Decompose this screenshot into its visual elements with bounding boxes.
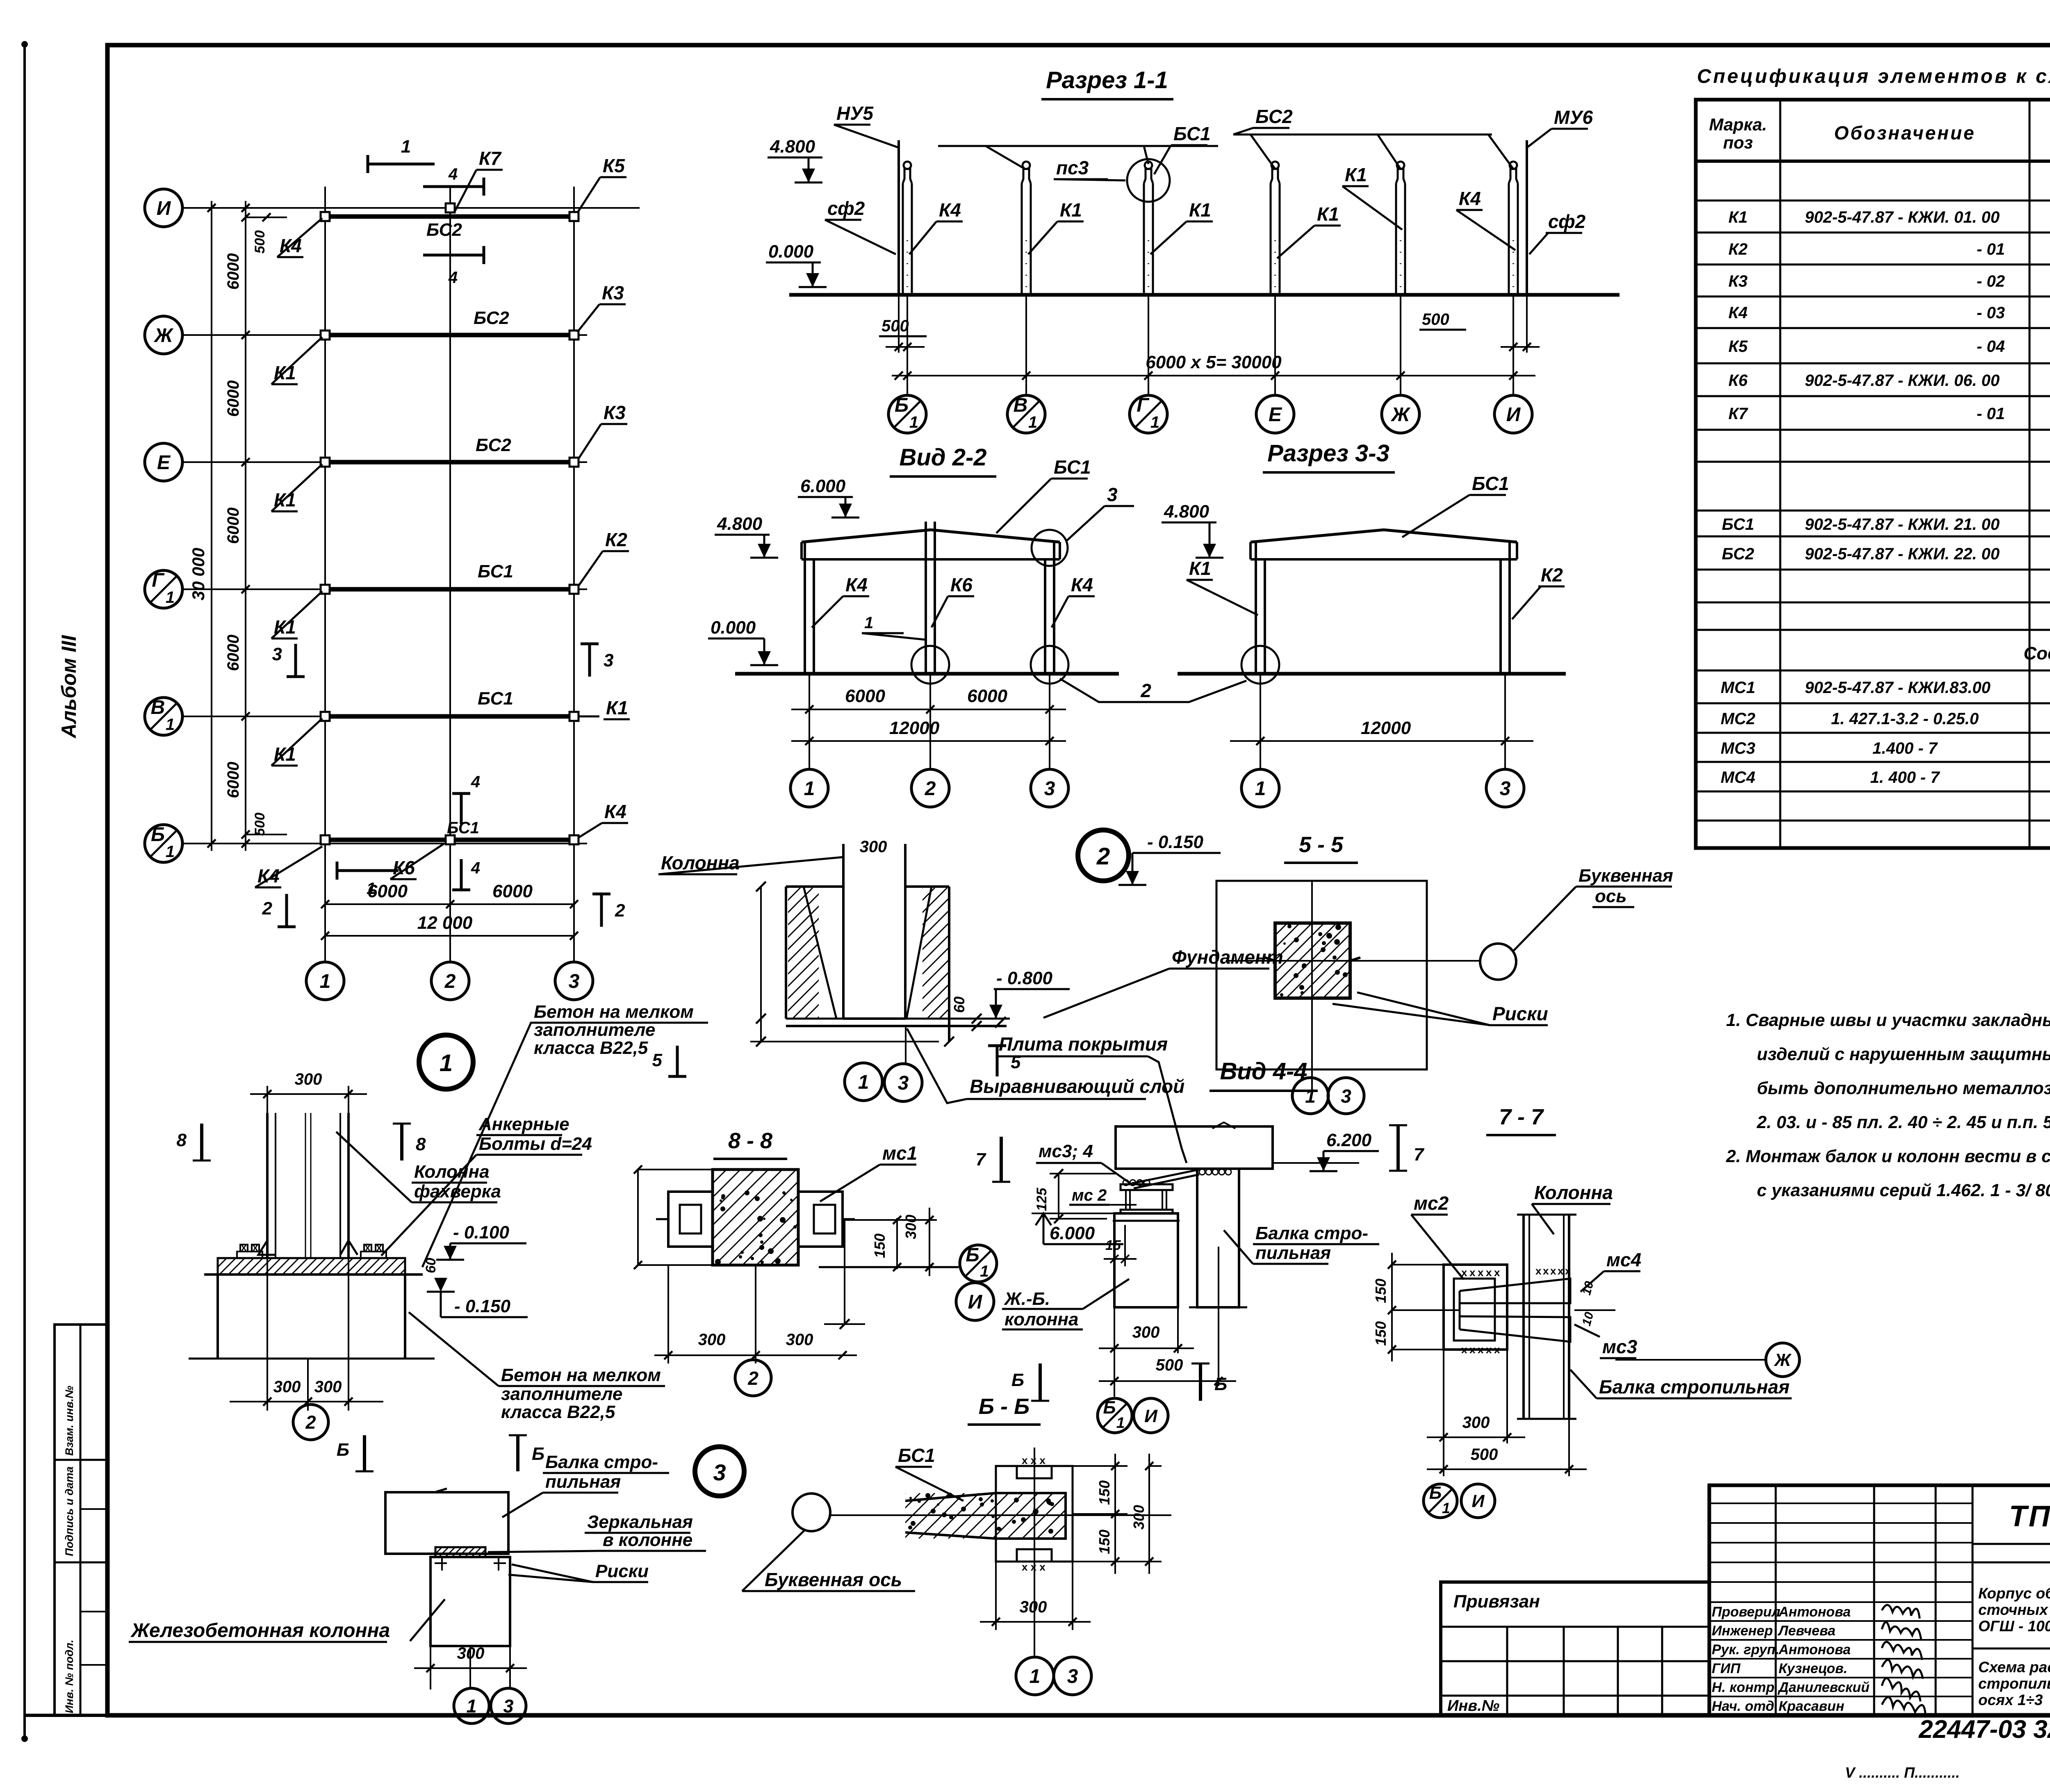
svg-text:К1: К1 (606, 697, 628, 718)
svg-text:3: 3 (503, 1696, 513, 1717)
svg-text:МС4: МС4 (1721, 768, 1755, 787)
svg-text:с указаниями серий 1.462: с указаниями серий 1.462. 1 - 3/ 80 и 1.… (1757, 1181, 2050, 1200)
svg-text:x: x (1543, 1265, 1549, 1277)
svg-text:2: 2 (615, 901, 625, 921)
svg-text:1: 1 (166, 843, 175, 861)
svg-text:И: И (157, 198, 171, 219)
svg-text:1: 1 (1116, 1414, 1125, 1431)
view 4-4 dim 125 (1058, 1174, 1059, 1219)
detail 2 bottom axis circles 1 3 (905, 1026, 907, 1065)
svg-text:сточных вод с 5 центрифугам: сточных вод с 5 центрифугами (1978, 1601, 2050, 1618)
svg-text:1: 1 (401, 137, 411, 157)
svg-text:1: 1 (466, 1696, 476, 1717)
svg-text:Ж.-Б.: Ж.-Б. (1004, 1289, 1050, 1309)
svg-text:60: 60 (951, 996, 968, 1013)
svg-text:Инженер: Инженер (1712, 1623, 1773, 1639)
svg-text:4: 4 (448, 269, 458, 287)
svg-text:БС1: БС1 (478, 561, 513, 581)
plan: section mark 4-4 upper pair (423, 185, 484, 188)
plan: section mark 4 bottom pair (460, 793, 463, 824)
section 1-1 extension lines to axis circles (907, 295, 908, 394)
svg-text:300: 300 (860, 838, 887, 856)
svg-text:Е: Е (1269, 404, 1282, 426)
detail 7-7 section mark 7 (1396, 1125, 1400, 1171)
svg-text:в колонне: в колонне (603, 1530, 692, 1550)
svg-text:12000: 12000 (889, 718, 940, 738)
plan: column squares at beam ends (321, 212, 330, 221)
svg-text:1: 1 (804, 778, 815, 800)
svg-text:МС3: МС3 (1721, 739, 1755, 757)
svg-text:Болты d=24: Болты d=24 (479, 1134, 592, 1154)
svg-text:Буквенная: Буквенная (1578, 866, 1673, 886)
view 4-4 sloped connector plates mc3 mc4 (1132, 1170, 1199, 1183)
svg-text:Ж: Ж (1774, 1350, 1792, 1370)
svg-text:Вид 4-4: Вид 4-4 (1220, 1058, 1307, 1085)
svg-text:Инв.№: Инв.№ (1447, 1697, 1499, 1714)
svg-text:6000 х 5= 30000: 6000 х 5= 30000 (1146, 352, 1282, 372)
svg-text:300: 300 (295, 1070, 322, 1088)
svg-text:6000: 6000 (224, 381, 242, 417)
svg-text:Б: Б (1214, 1374, 1227, 1394)
svg-text:4: 4 (471, 859, 480, 877)
svg-text:2: 2 (305, 1412, 316, 1433)
svg-text:500: 500 (252, 230, 268, 254)
svg-text:x: x (1478, 1343, 1484, 1356)
svg-text:0.000: 0.000 (768, 242, 814, 262)
svg-text:3: 3 (272, 644, 282, 664)
svg-text:Разрез 1-1: Разрез 1-1 (1046, 67, 1168, 93)
detail 2 section marks 5 (676, 1046, 679, 1076)
detail 1 section marks 8 (200, 1124, 203, 1160)
svg-text:Е: Е (157, 452, 171, 474)
svg-text:Корпус обезвоживания осадка: Корпус обезвоживания осадка (1978, 1585, 2050, 1602)
detail Б-Б axes (830, 1514, 1171, 1516)
plan: row axis circles and grid lines (145, 189, 182, 227)
left stamp strip (55, 1325, 107, 1715)
svg-text:И: И (1472, 1491, 1485, 1511)
svg-text:12000: 12000 (1361, 718, 1411, 738)
svg-text:ГИП: ГИП (1712, 1661, 1741, 1676)
svg-text:БС1: БС1 (1472, 473, 1509, 494)
plan: bottom dimension lines 6000+6000 and 12000 (325, 903, 574, 905)
svg-text:К6: К6 (1729, 372, 1748, 390)
svg-text:0.000: 0.000 (711, 618, 756, 638)
svg-text:К7: К7 (1729, 405, 1749, 423)
svg-text:БС1: БС1 (1722, 515, 1754, 533)
detail Б-Б column plan square (996, 1466, 1073, 1562)
svg-text:Б: Б (337, 1440, 349, 1460)
view 4-4 elevation 6.000 (1032, 1213, 1114, 1214)
svg-text:сф2: сф2 (827, 198, 865, 219)
svg-text:НУ5: НУ5 (836, 103, 874, 124)
svg-text:- 02: - 02 (1977, 272, 2005, 290)
svg-text:Г: Г (152, 570, 165, 591)
svg-text:Соединительные элементы: Соединительные элементы (2024, 643, 2050, 663)
svg-text:К4: К4 (1729, 304, 1748, 322)
svg-text:БС2: БС2 (426, 220, 462, 240)
svg-text:пильная: пильная (1255, 1243, 1331, 1263)
svg-text:мс2: мс2 (1414, 1192, 1449, 1214)
svg-text:1: 1 (1305, 1085, 1316, 1107)
svg-text:Н. контр: Н. контр (1712, 1680, 1774, 1695)
svg-text:300: 300 (314, 1378, 342, 1396)
svg-text:150: 150 (1096, 1480, 1113, 1505)
svg-text:заполнителе: заполнителе (534, 1020, 655, 1040)
section 1-1 axis circles (888, 395, 926, 433)
section 3-3 columns (1255, 542, 1257, 674)
svg-text:Плита покрытия: Плита покрытия (999, 1033, 1168, 1055)
svg-text:- 04: - 04 (1977, 337, 2005, 356)
section 1-1 detail circle at Г/1 top (1127, 159, 1170, 202)
svg-text:8: 8 (416, 1134, 426, 1154)
svg-text:150: 150 (871, 1233, 888, 1258)
svg-text:БС1: БС1 (898, 1445, 935, 1466)
svg-text:Буквенная ось: Буквенная ось (765, 1569, 902, 1590)
svg-text:6.000: 6.000 (1050, 1223, 1095, 1243)
detail 7-7 embed square (1444, 1265, 1507, 1350)
svg-text:6000: 6000 (224, 635, 242, 671)
svg-text:1: 1 (166, 716, 175, 734)
detail 8-8 dims 150 300 (843, 1219, 937, 1221)
svg-text:Ж: Ж (1390, 404, 1411, 426)
svg-text:Б: Б (1011, 1370, 1024, 1390)
svg-text:300: 300 (273, 1378, 301, 1396)
svg-text:Б: Б (151, 824, 165, 846)
svg-text:902-5-47.87 - КЖИ. 21. 00: 902-5-47.87 - КЖИ. 21. 00 (1805, 515, 2000, 533)
svg-text:Ж: Ж (153, 325, 174, 347)
svg-text:И: И (968, 1291, 983, 1313)
svg-text:Балка стро-: Балка стро- (545, 1452, 658, 1472)
detail 3 bottom dim 300 (430, 1646, 431, 1689)
svg-text:МС1: МС1 (1721, 679, 1755, 697)
detail 2 column shaft (842, 844, 845, 1019)
view 2-2 roof beam (802, 530, 1060, 542)
svg-text:И: И (1144, 1406, 1158, 1426)
svg-text:стропильных балок в: стропильных балок в (1978, 1675, 2050, 1692)
svg-text:7: 7 (1414, 1145, 1425, 1165)
svg-text:x: x (1469, 1343, 1476, 1356)
svg-text:мс1: мс1 (882, 1142, 917, 1164)
svg-text:ОГШ - 1001К - 01: ОГШ - 1001К - 01 (1978, 1618, 2050, 1635)
svg-text:6000: 6000 (492, 881, 533, 901)
svg-text:К6: К6 (950, 574, 973, 595)
detail 1 bottom dims 300 300 (266, 1258, 268, 1411)
specification table frame (1696, 100, 2050, 848)
svg-text:4: 4 (471, 773, 480, 791)
svg-text:К2: К2 (1541, 564, 1563, 586)
svg-text:30 000: 30 000 (189, 548, 208, 600)
plan: fachwerk column square K6 on row Б/1 (446, 835, 455, 844)
title block: signatures squiggles (1882, 1605, 1920, 1619)
svg-text:мс3: мс3 (1602, 1336, 1638, 1357)
section 3-3 ground line (1178, 672, 1566, 676)
detail 1 anchor bolt heads (237, 1252, 262, 1258)
svg-text:300: 300 (786, 1331, 813, 1349)
plan: section mark 2 left (285, 894, 288, 927)
svg-text:Антонова: Антонова (1778, 1604, 1851, 1620)
svg-text:- 0.800: - 0.800 (996, 968, 1053, 988)
svg-text:МС2: МС2 (1721, 710, 1755, 728)
svg-text:Б: Б (1103, 1398, 1116, 1418)
svg-text:Г: Г (1137, 394, 1150, 416)
svg-text:Балка стропильная: Балка стропильная (1599, 1376, 1790, 1398)
svg-text:150: 150 (1372, 1279, 1389, 1303)
svg-text:К7: К7 (479, 148, 502, 169)
svg-text:4: 4 (448, 165, 458, 183)
detail 2 foundation cup (786, 885, 843, 888)
svg-text:К4: К4 (604, 801, 626, 822)
detail 2 top dim 300 (843, 844, 844, 860)
svg-text:1: 1 (166, 588, 175, 606)
svg-text:1. 400 - 7: 1. 400 - 7 (1870, 768, 1940, 787)
detail 7-7 axis circles Б/1 И (1424, 1484, 1457, 1518)
svg-text:БС2: БС2 (1255, 106, 1293, 127)
svg-text:6.000: 6.000 (800, 476, 846, 496)
detail 3 section marks Б (363, 1435, 366, 1471)
svg-text:1: 1 (320, 971, 331, 992)
svg-text:1. Сварные швы и участки: 1. Сварные швы и участки закладных и сое… (1726, 1010, 2050, 1030)
left binding edge line (23, 44, 26, 1739)
svg-text:V .......... П...........: V .......... П........... (1845, 1764, 1960, 1781)
svg-text:500: 500 (252, 813, 268, 836)
svg-text:6.200: 6.200 (1326, 1130, 1372, 1150)
view 4-4 bottom dims (1114, 1307, 1115, 1397)
plan: section mark 3 right (588, 644, 591, 677)
svg-text:5: 5 (1011, 1052, 1021, 1072)
svg-text:125: 125 (1034, 1188, 1050, 1211)
detail 7-7 bottom dims 300 500 (1443, 1350, 1444, 1476)
svg-text:МУ6: МУ6 (1554, 107, 1593, 128)
svg-text:300: 300 (1132, 1323, 1160, 1341)
svg-text:К4: К4 (1459, 188, 1481, 209)
svg-text:1: 1 (440, 1050, 453, 1076)
detail 5-5 letter axis circle (1480, 944, 1516, 980)
svg-text:фахверка: фахверка (414, 1181, 501, 1202)
svg-text:Колонна: Колонна (1534, 1182, 1613, 1203)
detail 3 bearing pad (435, 1547, 485, 1557)
view 4-4 weld dots under slab (1199, 1169, 1205, 1175)
svg-text:x: x (1558, 1265, 1564, 1277)
svg-text:1: 1 (980, 1263, 989, 1280)
svg-text:Бетон на мелком: Бетон на мелком (534, 1002, 694, 1022)
svg-text:3: 3 (604, 650, 613, 670)
svg-text:2: 2 (262, 898, 273, 919)
svg-text:1. 427.1-3.2 - 0.25.0: 1. 427.1-3.2 - 0.25.0 (1831, 710, 1979, 728)
title block: object name cell (1973, 1648, 2050, 1650)
detail Б-Б section marks Б (1039, 1363, 1042, 1401)
svg-text:К2: К2 (605, 529, 627, 550)
detail 1 leader from concrete note to grout (435, 1022, 531, 1023)
svg-text:Инв. № подл.: Инв. № подл. (63, 1640, 75, 1713)
svg-text:БС2: БС2 (1722, 545, 1754, 563)
detail 7-7 column (1522, 1215, 1525, 1419)
svg-text:Б: Б (1429, 1483, 1442, 1503)
svg-text:быть дополнительно мета: быть дополнительно металлозированы согла… (1757, 1078, 2050, 1098)
detail 5-5 hatched column section (1275, 923, 1350, 998)
svg-text:Альбом III: Альбом III (57, 635, 80, 739)
svg-text:6000: 6000 (224, 253, 242, 290)
svg-text:К4: К4 (939, 199, 961, 221)
detail 8-8 embedded plates (668, 1192, 713, 1247)
svg-text:Выравнивающий слой: Выравнивающий слой (970, 1076, 1184, 1097)
detail 1 fachwerk column (266, 1113, 269, 1258)
section 3-3 axis circles 1 3 (1241, 769, 1279, 807)
plan: section mark 3 left (294, 644, 297, 677)
detail 2 left dim extension (760, 887, 762, 1042)
svg-text:К3: К3 (1729, 272, 1748, 290)
svg-text:x: x (1461, 1343, 1467, 1356)
detail 5-5 bottom circles 1 3 (1311, 1083, 1313, 1093)
section 1-1 fachwerk posts at ends (897, 140, 900, 295)
svg-text:И: И (1506, 404, 1521, 426)
detail Б-Б letter axis circle and label (793, 1493, 830, 1531)
view 2-2 ground line (735, 672, 1119, 676)
section 1-1 main dim line 6000x5=30000 (892, 375, 1535, 376)
detail 5-5 outer outline (1216, 881, 1427, 1069)
svg-text:- 01: - 01 (1977, 405, 2005, 423)
svg-text:класса В22,5: класса В22,5 (534, 1038, 648, 1058)
detail Б-Б bottom dim 300 and circles (995, 1562, 997, 1630)
svg-text:7: 7 (976, 1149, 987, 1170)
svg-text:К1: К1 (1060, 199, 1082, 221)
svg-text:3: 3 (1341, 1085, 1351, 1107)
svg-text:Обозначение: Обозначение (1834, 122, 1975, 144)
svg-text:БС2: БС2 (476, 435, 511, 455)
svg-text:Б: Б (895, 394, 909, 416)
svg-text:Рук. груп.: Рук. груп. (1712, 1642, 1779, 1657)
svg-text:1: 1 (909, 413, 918, 431)
detail 3 column (430, 1557, 510, 1646)
svg-text:6000: 6000 (224, 508, 242, 544)
svg-text:500: 500 (1471, 1445, 1498, 1464)
svg-text:3: 3 (569, 971, 580, 992)
svg-text:3: 3 (713, 1459, 726, 1485)
svg-text:мс3; 4: мс3; 4 (1039, 1141, 1093, 1161)
svg-text:300: 300 (1462, 1414, 1490, 1432)
detail Б-Б right dims 150 150 300 (1073, 1465, 1127, 1467)
svg-text:Анкерные: Анкерные (478, 1114, 569, 1134)
svg-text:150: 150 (1096, 1530, 1113, 1554)
svg-text:В: В (1014, 394, 1028, 416)
svg-text:x: x (1486, 1343, 1492, 1356)
svg-text:2: 2 (747, 1368, 758, 1389)
svg-text:К1: К1 (1729, 208, 1748, 226)
svg-text:К4: К4 (1071, 574, 1093, 595)
svg-text:x: x (1486, 1266, 1492, 1279)
detail 8-8 reference circle 2 (755, 1358, 756, 1363)
svg-text:Риски: Риски (1492, 1003, 1548, 1024)
svg-text:Вид 2-2: Вид 2-2 (899, 444, 986, 471)
svg-text:К3: К3 (602, 282, 624, 303)
svg-text:К5: К5 (1729, 337, 1748, 356)
svg-text:902-5-47.87 - КЖИ. 06. 00: 902-5-47.87 - КЖИ. 06. 00 (1805, 372, 2000, 390)
svg-text:ТП 902-5-47.87: ТП 902-5-47.87 (2009, 1500, 2050, 1533)
svg-text:Нач. отд: Нач. отд (1712, 1699, 1774, 1714)
view 4-4 elevation 6.200 line (1273, 1162, 1359, 1164)
section 1-1 beam line BC2 over Г/1..И (1233, 134, 1492, 136)
svg-text:4.800: 4.800 (770, 137, 815, 157)
svg-text:3: 3 (1500, 778, 1511, 800)
plan: column line 1 (324, 187, 326, 961)
detail 3 beam rect (385, 1492, 508, 1554)
detail 7-7 beam wedges (1460, 1279, 1570, 1303)
svg-text:Привязан: Привязан (1453, 1591, 1540, 1612)
svg-text:Б: Б (532, 1444, 544, 1464)
svg-text:К5: К5 (603, 155, 625, 176)
svg-text:500: 500 (1156, 1356, 1183, 1374)
svg-text:мс4: мс4 (1606, 1249, 1641, 1270)
view 2-2 / section 3-3 connector label 2 (1060, 679, 1246, 702)
detail 7-7 left dims 150 150 (1392, 1264, 1444, 1265)
svg-text:изделий с нарушенным за: изделий с нарушенным защитным покрытием … (1757, 1044, 2050, 1064)
plan: bottom column axis circles 1 2 3 (306, 962, 344, 1000)
detail 1 base angles (258, 1240, 276, 1255)
svg-text:2. Монтаж балок и колонн: 2. Монтаж балок и колонн вести в соответ… (1726, 1147, 2050, 1166)
svg-text:x: x (253, 1242, 258, 1253)
svg-text:- 03: - 03 (1977, 304, 2005, 322)
svg-text:x: x (376, 1242, 382, 1253)
detail 3 marker circle (695, 1447, 744, 1496)
svg-text:К1: К1 (1345, 164, 1367, 185)
svg-text:2: 2 (1140, 680, 1151, 701)
svg-text:Данилевский: Данилевский (1777, 1680, 1870, 1695)
view 4-4 column (1114, 1213, 1178, 1307)
detail 8-8 left vertical dim (637, 1170, 639, 1265)
svg-text:заполнителе: заполнителе (501, 1384, 622, 1404)
section 3-3 dims (1260, 674, 1261, 769)
svg-text:3: 3 (1067, 1666, 1078, 1687)
view 4-4 axis circles Б/1 И (1098, 1398, 1132, 1433)
svg-text:Красавин: Красавин (1779, 1699, 1844, 1714)
svg-text:902-5-47.87 - КЖИ. 01. 00: 902-5-47.87 - КЖИ. 01. 00 (1805, 208, 2000, 226)
svg-text:Кузнецов.: Кузнецов. (1779, 1661, 1847, 1676)
section 1-1 columns (902, 183, 904, 295)
svg-text:Балка стро-: Балка стро- (1255, 1223, 1368, 1243)
svg-text:x: x (1494, 1266, 1500, 1279)
svg-text:В: В (151, 697, 165, 718)
svg-text:К1: К1 (1317, 203, 1339, 225)
svg-text:x: x (365, 1242, 371, 1253)
title block: signature columns (1775, 1485, 1777, 1715)
svg-text:пс3: пс3 (1056, 157, 1089, 178)
plan: vertical dimension line 30000 (211, 201, 212, 851)
svg-text:ось: ось (1595, 886, 1626, 906)
svg-text:Спецификация элементов к сх: Спецификация элементов к схеме расположе… (1697, 66, 2050, 87)
detail 8-8 bottom dims 300 300 (667, 1265, 669, 1363)
view 2-2 circle 3 at beam end (1032, 530, 1068, 566)
svg-text:Колонна: Колонна (414, 1162, 490, 1182)
svg-text:сф2: сф2 (1548, 211, 1586, 232)
svg-text:x: x (1550, 1265, 1556, 1277)
svg-text:Антонова: Антонова (1778, 1642, 1851, 1657)
reference circle 2 under detail 1 (293, 1404, 328, 1440)
svg-text:15: 15 (1105, 1238, 1121, 1253)
svg-text:- 01: - 01 (1977, 240, 2005, 258)
svg-text:Взам. инв.№: Взам. инв.№ (63, 1386, 75, 1456)
svg-text:6000: 6000 (845, 686, 885, 706)
section mark 7 left (1000, 1137, 1003, 1182)
view 2-2 base detail circles (911, 646, 949, 684)
section 1-1 beam line BC1 over Б/1..Г/1 (938, 145, 1218, 147)
svg-text:колонна: колонна (1004, 1309, 1078, 1329)
svg-text:x: x (1478, 1266, 1484, 1279)
detail 7-7 axis to Ж circle (1615, 1359, 1765, 1361)
detail 1 grout layer hatched (218, 1258, 405, 1274)
svg-text:300: 300 (902, 1215, 919, 1239)
view 4-4 strop beam (1197, 1169, 1239, 1307)
svg-text:К1: К1 (1189, 558, 1211, 579)
svg-text:Б - Б: Б - Б (979, 1394, 1030, 1419)
